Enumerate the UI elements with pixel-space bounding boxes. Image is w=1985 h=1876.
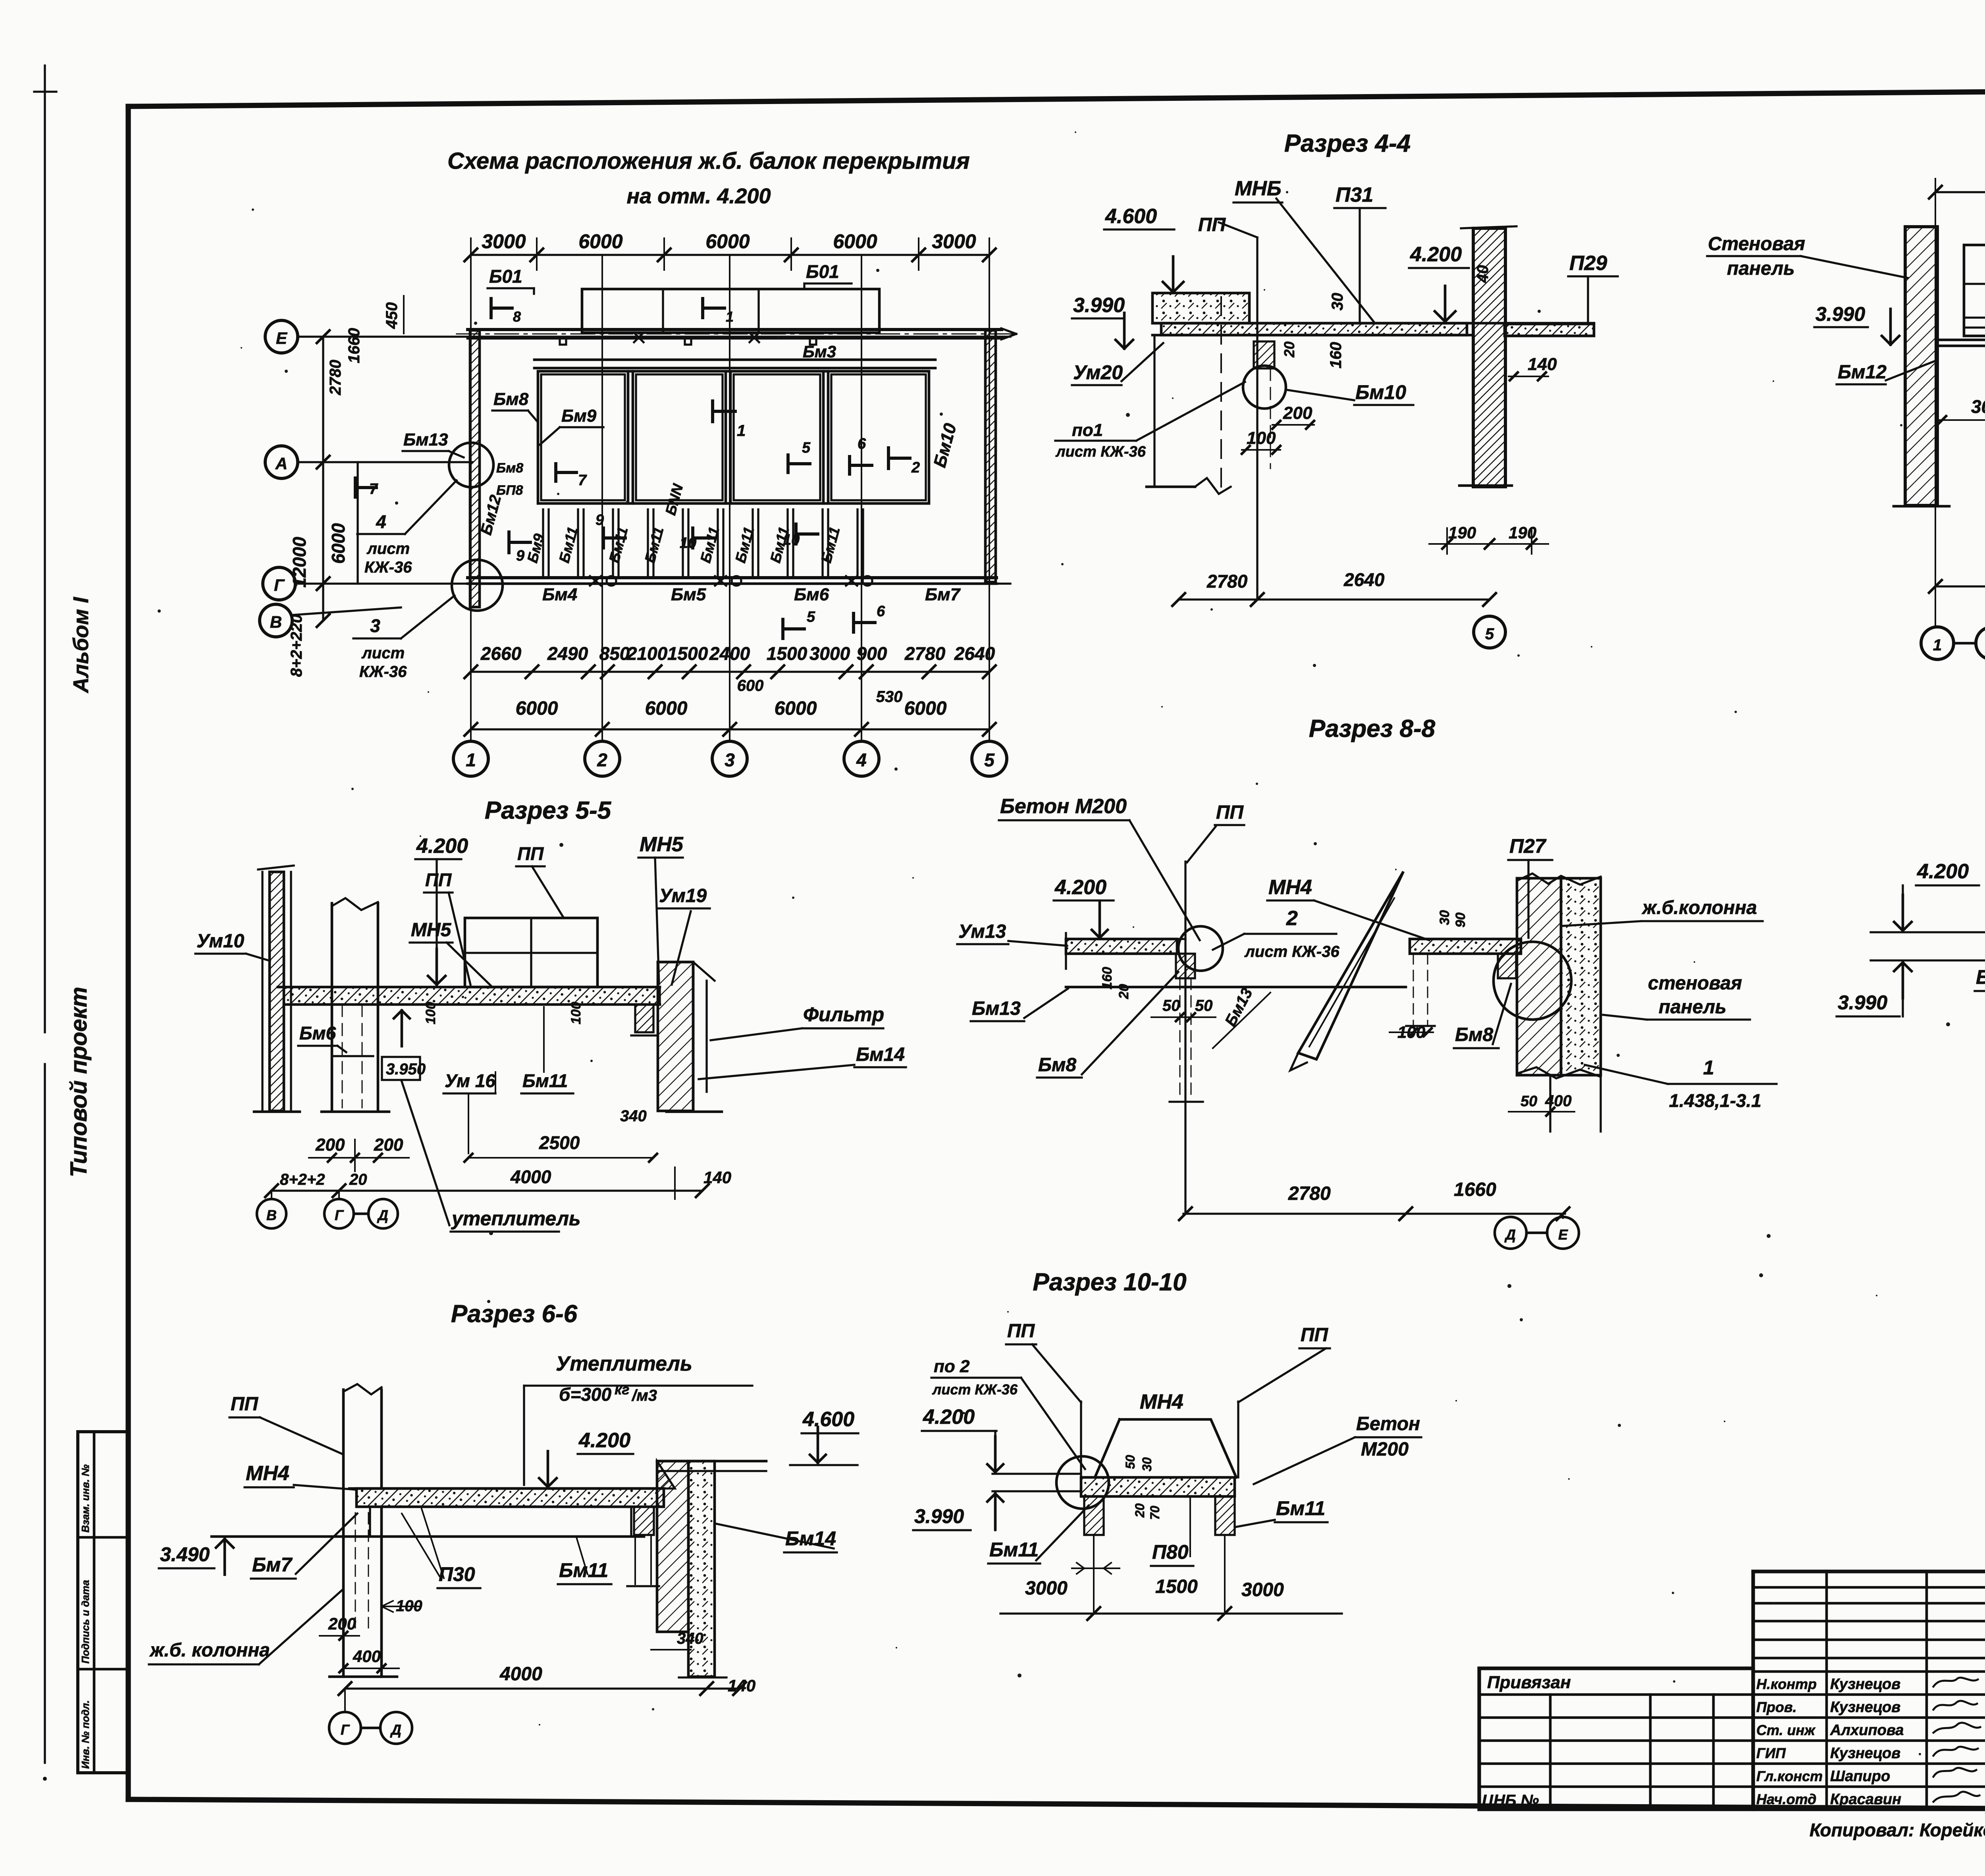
svg-text:ПП: ПП xyxy=(517,843,544,864)
svg-text:Ум10: Ум10 xyxy=(197,931,245,952)
svg-text:3000: 3000 xyxy=(932,230,976,253)
svg-text:9: 9 xyxy=(516,548,524,564)
svg-text:30: 30 xyxy=(1437,910,1452,925)
svg-text:панель: панель xyxy=(1659,997,1727,1018)
svg-text:Бм8: Бм8 xyxy=(1038,1055,1076,1076)
svg-text:Схема расположения ж.б. балок: Схема расположения ж.б. балок перекрытия xyxy=(447,148,970,174)
svg-text:Красавин: Красавин xyxy=(1830,1791,1901,1808)
svg-text:70: 70 xyxy=(1148,1506,1162,1520)
svg-text:30: 30 xyxy=(1329,293,1346,311)
svg-text:Кузнецов: Кузнецов xyxy=(1830,1699,1900,1716)
svg-text:ж.б. колонна: ж.б. колонна xyxy=(149,1640,270,1661)
svg-text:Бетон: Бетон xyxy=(1356,1413,1420,1434)
svg-text:Типовой проект: Типовой проект xyxy=(66,987,92,1177)
svg-text:МН5: МН5 xyxy=(411,920,452,941)
svg-text:2400: 2400 xyxy=(709,643,750,664)
svg-text:/м3: /м3 xyxy=(631,1387,657,1404)
svg-text:Копировал: Корейко я: Копировал: Корейко я xyxy=(1810,1820,1985,1840)
svg-text:600: 600 xyxy=(737,677,764,694)
svg-text:200: 200 xyxy=(374,1135,403,1155)
svg-text:ПП: ПП xyxy=(1007,1321,1035,1342)
svg-text:5: 5 xyxy=(802,440,811,456)
svg-text:Разрез 10-10: Разрез 10-10 xyxy=(1033,1269,1186,1296)
svg-text:12000: 12000 xyxy=(289,537,310,588)
svg-text:4.200: 4.200 xyxy=(1054,876,1106,899)
svg-text:Фильтр: Фильтр xyxy=(803,1003,884,1026)
svg-text:Подпись и дата: Подпись и дата xyxy=(79,1580,91,1664)
svg-text:850: 850 xyxy=(599,643,630,664)
svg-text:20: 20 xyxy=(1281,341,1297,358)
svg-text:4: 4 xyxy=(856,750,867,770)
svg-text:П29: П29 xyxy=(1569,252,1607,275)
svg-text:4000: 4000 xyxy=(499,1664,542,1685)
svg-text:Е: Е xyxy=(1558,1226,1568,1243)
svg-text:100: 100 xyxy=(1247,428,1276,448)
svg-text:4.200: 4.200 xyxy=(578,1429,630,1452)
svg-text:400: 400 xyxy=(1545,1092,1572,1110)
svg-text:400: 400 xyxy=(353,1647,381,1666)
svg-text:140: 140 xyxy=(1528,355,1557,374)
svg-text:Е: Е xyxy=(276,329,288,347)
svg-text:2490: 2490 xyxy=(547,643,588,664)
svg-text:5: 5 xyxy=(984,750,995,770)
svg-text:200: 200 xyxy=(1283,403,1312,423)
svg-text:Бм12: Бм12 xyxy=(1838,362,1887,383)
svg-text:Г: Г xyxy=(274,576,285,594)
svg-text:2: 2 xyxy=(597,750,607,770)
svg-text:3.990: 3.990 xyxy=(1838,991,1887,1014)
svg-text:ж.б.колонна: ж.б.колонна xyxy=(1641,897,1757,918)
svg-text:340: 340 xyxy=(677,1630,703,1647)
svg-text:20: 20 xyxy=(349,1171,367,1188)
svg-text:3000: 3000 xyxy=(482,230,526,253)
svg-text:ПП: ПП xyxy=(425,870,452,890)
svg-text:100: 100 xyxy=(569,1002,584,1024)
svg-text:Бм9: Бм9 xyxy=(561,406,597,426)
svg-text:140: 140 xyxy=(703,1168,731,1187)
svg-text:В: В xyxy=(270,613,282,631)
svg-text:БП8: БП8 xyxy=(496,483,523,498)
svg-text:МНБ: МНБ xyxy=(1235,177,1282,200)
svg-text:3: 3 xyxy=(370,615,380,636)
svg-text:1: 1 xyxy=(466,750,476,770)
svg-text:9: 9 xyxy=(595,512,604,528)
svg-text:4.200: 4.200 xyxy=(1410,243,1462,266)
svg-text:Ум19: Ум19 xyxy=(659,885,707,906)
svg-text:6000: 6000 xyxy=(775,698,817,719)
svg-text:Инв. № подл.: Инв. № подл. xyxy=(79,1700,91,1769)
svg-text:4.200: 4.200 xyxy=(923,1406,975,1429)
svg-text:160: 160 xyxy=(1100,967,1115,989)
svg-text:2: 2 xyxy=(911,459,920,476)
svg-text:7: 7 xyxy=(369,481,378,497)
svg-text:Бм3: Бм3 xyxy=(803,342,836,361)
svg-text:8+2+2: 8+2+2 xyxy=(280,1171,325,1188)
svg-text:Алхипова: Алхипова xyxy=(1830,1722,1904,1739)
svg-text:Кузнецов: Кузнецов xyxy=(1830,1676,1900,1693)
svg-text:Бм5: Бм5 xyxy=(671,585,706,604)
svg-text:1660: 1660 xyxy=(1454,1179,1496,1200)
svg-text:3000: 3000 xyxy=(1025,1578,1068,1599)
svg-text:200: 200 xyxy=(315,1135,345,1155)
svg-text:6000: 6000 xyxy=(833,230,877,253)
svg-text:Гл.конст: Гл.конст xyxy=(1756,1768,1823,1784)
svg-text:Разрез 8-8: Разрез 8-8 xyxy=(1309,715,1436,742)
svg-text:Взам. инв. №: Взам. инв. № xyxy=(79,1464,91,1533)
svg-text:В: В xyxy=(266,1207,277,1223)
svg-text:6000: 6000 xyxy=(516,698,558,719)
svg-text:Бм6: Бм6 xyxy=(794,585,829,604)
svg-text:Бм13: Бм13 xyxy=(403,430,448,449)
svg-text:140: 140 xyxy=(728,1676,755,1695)
svg-text:2780: 2780 xyxy=(327,360,344,395)
svg-text:Бм8: Бм8 xyxy=(1455,1024,1493,1045)
svg-text:3.950: 3.950 xyxy=(386,1060,426,1078)
svg-text:Бетон М200: Бетон М200 xyxy=(1000,795,1127,818)
svg-text:Бм6: Бм6 xyxy=(299,1023,336,1043)
svg-text:40: 40 xyxy=(1474,265,1492,283)
svg-text:ПП: ПП xyxy=(1216,802,1244,823)
svg-text:МН4: МН4 xyxy=(1268,876,1312,899)
svg-text:Пров.: Пров. xyxy=(1756,1699,1797,1715)
svg-text:300: 300 xyxy=(1971,396,1985,417)
svg-text:530: 530 xyxy=(876,688,903,706)
svg-text:Н.контр: Н.контр xyxy=(1756,1676,1817,1692)
svg-text:Бм14: Бм14 xyxy=(856,1044,905,1065)
svg-text:ЦНБ №: ЦНБ № xyxy=(1482,1792,1539,1809)
svg-text:4.600: 4.600 xyxy=(1105,205,1157,228)
svg-text:Бм7: Бм7 xyxy=(925,585,961,604)
svg-text:3000: 3000 xyxy=(809,643,850,664)
svg-text:Г: Г xyxy=(335,1207,344,1223)
svg-text:П80: П80 xyxy=(1152,1541,1189,1563)
svg-text:КЖ-36: КЖ-36 xyxy=(359,663,407,681)
svg-text:4000: 4000 xyxy=(510,1166,551,1187)
svg-text:90: 90 xyxy=(1453,912,1468,927)
svg-text:по1: по1 xyxy=(1072,420,1103,440)
svg-text:1500: 1500 xyxy=(1155,1576,1198,1597)
svg-text:лист КЖ-36: лист КЖ-36 xyxy=(1244,943,1339,960)
svg-text:МН4: МН4 xyxy=(1140,1390,1183,1413)
svg-text:1: 1 xyxy=(1933,636,1942,654)
svg-text:160: 160 xyxy=(1327,342,1345,368)
svg-text:3.990: 3.990 xyxy=(1073,294,1125,317)
svg-text:МН5: МН5 xyxy=(640,833,684,856)
svg-text:Г: Г xyxy=(341,1722,350,1738)
svg-text:1: 1 xyxy=(726,308,734,325)
svg-text:1500: 1500 xyxy=(767,643,807,664)
svg-text:утеплитель: утеплитель xyxy=(451,1207,581,1230)
svg-text:4: 4 xyxy=(376,511,386,532)
svg-text:20: 20 xyxy=(1116,984,1131,999)
svg-text:1.438,1-3.1: 1.438,1-3.1 xyxy=(1669,1090,1761,1111)
svg-text:Ст. инж: Ст. инж xyxy=(1756,1722,1816,1738)
svg-text:на отм. 4.200: на отм. 4.200 xyxy=(626,184,771,208)
svg-text:лист КЖ-36: лист КЖ-36 xyxy=(1055,443,1146,460)
svg-text:КЖ-36: КЖ-36 xyxy=(364,559,412,576)
svg-text:Д: Д xyxy=(390,1722,401,1738)
svg-text:Б01: Б01 xyxy=(489,266,522,287)
svg-text:2780: 2780 xyxy=(1288,1183,1331,1204)
svg-text:4.600: 4.600 xyxy=(802,1408,854,1431)
svg-text:Б01: Б01 xyxy=(806,261,839,282)
svg-text:2660: 2660 xyxy=(480,643,522,664)
svg-text:Ум13: Ум13 xyxy=(958,921,1006,942)
svg-text:50: 50 xyxy=(1521,1093,1537,1110)
svg-text:2640: 2640 xyxy=(1343,569,1385,590)
svg-text:1660: 1660 xyxy=(345,328,363,363)
svg-text:20: 20 xyxy=(1133,1503,1147,1518)
svg-text:ПП: ПП xyxy=(1301,1325,1329,1346)
svg-text:Бм10: Бм10 xyxy=(1355,381,1406,403)
svg-text:6000: 6000 xyxy=(645,698,688,719)
svg-text:Ум 16: Ум 16 xyxy=(445,1070,495,1091)
svg-text:3.990: 3.990 xyxy=(1815,303,1865,325)
svg-text:200: 200 xyxy=(328,1614,356,1633)
svg-text:б=300: б=300 xyxy=(559,1384,612,1405)
svg-text:50: 50 xyxy=(1123,1455,1137,1469)
svg-text:П30: П30 xyxy=(439,1563,475,1585)
svg-text:Бм8: Бм8 xyxy=(496,461,523,476)
svg-text:50: 50 xyxy=(1195,997,1213,1014)
svg-text:М200: М200 xyxy=(1361,1439,1409,1460)
svg-text:Бм11: Бм11 xyxy=(1276,1497,1325,1519)
svg-text:Бм11: Бм11 xyxy=(989,1539,1039,1561)
svg-text:1: 1 xyxy=(737,422,746,440)
svg-text:Бм13: Бм13 xyxy=(972,998,1021,1019)
svg-text:ГИП: ГИП xyxy=(1756,1745,1786,1761)
svg-text:Привязан: Привязан xyxy=(1487,1673,1571,1692)
svg-text:6: 6 xyxy=(877,603,885,620)
svg-text:Разрез 6-6: Разрез 6-6 xyxy=(451,1300,578,1328)
svg-text:Нач.отд: Нач.отд xyxy=(1756,1791,1816,1807)
svg-text:ПП: ПП xyxy=(1198,214,1226,235)
svg-text:Бм8: Бм8 xyxy=(493,389,529,409)
svg-text:450: 450 xyxy=(383,302,401,329)
svg-text:Утеплитель: Утеплитель xyxy=(556,1352,692,1375)
svg-text:панель: панель xyxy=(1727,258,1795,279)
svg-text:1500: 1500 xyxy=(667,643,708,664)
svg-text:10: 10 xyxy=(783,532,800,548)
svg-text:6: 6 xyxy=(858,436,866,452)
svg-text:МН4: МН4 xyxy=(246,1462,289,1485)
svg-text:2: 2 xyxy=(1286,907,1298,930)
svg-text:лист: лист xyxy=(361,644,405,662)
svg-text:3000: 3000 xyxy=(1241,1579,1284,1600)
svg-text:Разрез 5-5: Разрез 5-5 xyxy=(485,797,612,824)
svg-text:8+2+220: 8+2+220 xyxy=(288,614,305,677)
svg-text:Шапиро: Шапиро xyxy=(1830,1768,1890,1785)
svg-text:3.990: 3.990 xyxy=(914,1505,964,1527)
svg-text:П27: П27 xyxy=(1509,835,1547,857)
svg-text:Бм9: Бм9 xyxy=(1976,966,1985,988)
svg-text:900: 900 xyxy=(857,643,887,664)
svg-text:30: 30 xyxy=(1140,1457,1154,1471)
svg-text:340: 340 xyxy=(620,1107,647,1125)
svg-text:2500: 2500 xyxy=(539,1132,580,1153)
svg-text:5: 5 xyxy=(1485,625,1494,643)
svg-text:Ум20: Ум20 xyxy=(1073,361,1123,384)
svg-text:1: 1 xyxy=(1703,1057,1714,1079)
svg-text:6000: 6000 xyxy=(705,230,750,253)
svg-text:100: 100 xyxy=(423,1002,438,1024)
svg-text:Бм7: Бм7 xyxy=(252,1554,293,1576)
svg-text:Альбом I: Альбом I xyxy=(69,597,93,694)
svg-text:Бм4: Бм4 xyxy=(542,585,577,604)
svg-text:Д: Д xyxy=(377,1207,388,1223)
svg-text:4.200: 4.200 xyxy=(416,835,468,858)
svg-text:10: 10 xyxy=(680,535,696,551)
svg-text:Д: Д xyxy=(1504,1226,1516,1243)
svg-text:ПП: ПП xyxy=(231,1394,259,1415)
svg-text:6000: 6000 xyxy=(904,698,947,719)
svg-text:2780: 2780 xyxy=(904,643,946,664)
svg-text:Кузнецов: Кузнецов xyxy=(1830,1745,1900,1762)
svg-text:6000: 6000 xyxy=(578,230,622,253)
svg-text:2100: 2100 xyxy=(626,643,668,664)
svg-text:по 2: по 2 xyxy=(934,1357,970,1376)
svg-text:стеновая: стеновая xyxy=(1648,973,1742,994)
svg-text:3: 3 xyxy=(725,750,735,770)
svg-text:4.200: 4.200 xyxy=(1917,860,1969,883)
svg-text:кг: кг xyxy=(615,1381,629,1398)
svg-text:Стеновая: Стеновая xyxy=(1708,233,1805,255)
svg-text:3.490: 3.490 xyxy=(160,1543,210,1566)
svg-text:5: 5 xyxy=(807,609,815,625)
svg-text:50: 50 xyxy=(1162,997,1180,1014)
svg-text:2780: 2780 xyxy=(1206,571,1248,592)
svg-text:Разрез 4-4: Разрез 4-4 xyxy=(1284,130,1411,157)
svg-text:8: 8 xyxy=(513,308,521,325)
svg-text:2640: 2640 xyxy=(954,643,995,664)
svg-text:Бм11: Бм11 xyxy=(522,1070,568,1091)
svg-text:лист КЖ-36: лист КЖ-36 xyxy=(932,1381,1018,1398)
svg-text:А: А xyxy=(275,454,287,473)
svg-text:7: 7 xyxy=(578,472,587,489)
svg-text:П31: П31 xyxy=(1336,183,1373,206)
svg-text:6000: 6000 xyxy=(328,523,349,564)
svg-text:лист: лист xyxy=(366,540,410,557)
